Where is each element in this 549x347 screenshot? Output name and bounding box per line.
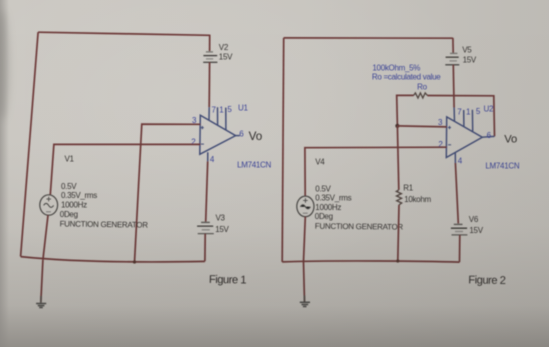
battery V2 [203,35,217,63]
wire pin 4 to V6 [455,163,458,223]
wire pin 4 to V3 [206,161,208,221]
ground symbol fig1 [36,304,46,308]
wire V4 minus to rail [304,217,306,262]
op-amp U2 [446,108,494,164]
junction pin3 rail [133,260,136,263]
ground symbol fig2 [300,302,310,306]
wire node A up to Ro [397,95,414,126]
wire node A down to R1 [397,126,398,190]
junction R1 rail [396,259,399,262]
wire V6 to rail [459,235,461,262]
wire pin 3 to ground rail [135,124,201,262]
wire pin 2 to V4 [305,147,447,196]
battery V3 [197,222,214,233]
op-amp U1 [200,107,240,161]
wire V1 minus to rail [43,215,48,260]
source V4 function generator [297,196,314,217]
wire pin 2 to V1 [50,144,200,194]
wire left side down [282,38,284,262]
wire V3 to rail [204,234,206,262]
battery V5 [445,38,459,65]
wire V5 top to top-left corner [284,37,453,39]
wire left side down [21,32,38,256]
wire V2 to pin 7 [208,62,210,107]
wire rail to ground stub [304,262,305,302]
wire bottom rail [21,257,205,262]
wire Ro to output [427,96,494,137]
wire rail to ground stub [41,260,43,303]
wire V2 top to top-left corner [38,32,210,35]
wire R1 to rail [398,205,399,261]
wire pin 3 to node A [397,126,446,127]
resistor R1 [396,190,401,205]
source V1 function generator [40,195,58,215]
resistor Ro [414,93,428,98]
node A junction dot [395,124,399,128]
wire bottom rail [282,261,459,262]
wire V5 to pin 7 [452,65,455,108]
battery V6 [451,224,468,235]
